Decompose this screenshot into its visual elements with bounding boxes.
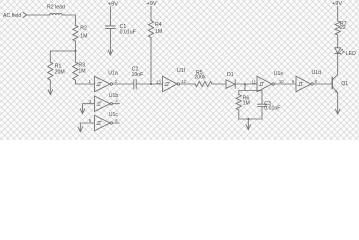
svg-text:R2: R2 xyxy=(80,26,87,32)
svg-text:1M: 1M xyxy=(78,69,85,75)
capacitor C1 xyxy=(105,25,115,27)
wire C1 bottom xyxy=(109,29,111,55)
wire U1d output to Q1 base xyxy=(313,83,332,85)
node junction R4/main xyxy=(150,83,152,85)
wire coil to R2 top xyxy=(62,15,75,25)
inductor R2 lead (coil) xyxy=(50,13,62,15)
node junction D1/R6C3 xyxy=(244,83,246,85)
svg-text:9: 9 xyxy=(292,79,295,84)
svg-text:4: 4 xyxy=(115,99,118,104)
wire U1b output stub xyxy=(113,103,120,105)
wire bottom rail to ground xyxy=(247,119,249,129)
schmitt mark U1b xyxy=(96,102,101,105)
resistor R5 xyxy=(195,81,212,86)
wire R2 bottom to junction xyxy=(74,41,76,51)
svg-text:6: 6 xyxy=(115,118,118,123)
svg-text:U1a: U1a xyxy=(108,70,118,76)
svg-text:12: 12 xyxy=(181,79,186,84)
op-amp U1e (schmitt inverter) xyxy=(274,71,284,77)
op-amp U1b (schmitt inverter, unused) xyxy=(109,93,119,99)
node bottom rail center xyxy=(247,118,249,120)
wire top rail to C3 xyxy=(261,91,263,105)
power +9V rail 2 xyxy=(147,1,157,7)
transistor Q1 xyxy=(331,78,333,89)
wire RC top rail xyxy=(239,90,262,92)
ground arrow U1c input xyxy=(78,127,83,132)
wire U1f output to R5 xyxy=(180,83,195,85)
resistor R1 xyxy=(48,62,53,80)
AC field input chevron xyxy=(23,12,27,17)
svg-text:2: 2 xyxy=(115,79,118,84)
ground arrow below R6/C3 xyxy=(246,125,251,130)
svg-text:1M: 1M xyxy=(155,29,162,35)
svg-text:R4: R4 xyxy=(155,22,162,28)
svg-text:Q1: Q1 xyxy=(341,81,348,87)
wire R4 bottom to main row xyxy=(150,38,152,85)
svg-text:0.01uF: 0.01uF xyxy=(120,29,136,35)
wire R7 to LED xyxy=(337,35,339,48)
wire U1a output to C2 xyxy=(113,83,134,85)
wire R5 to D1 xyxy=(212,83,226,85)
wire Q1 emitter down xyxy=(337,93,339,114)
svg-text:AC field: AC field xyxy=(3,13,21,19)
op-amp U1d (schmitt inverter) xyxy=(312,70,322,76)
svg-text:R2 lead: R2 lead xyxy=(47,4,65,10)
wire R6 bottom to bottom rail xyxy=(238,110,240,119)
svg-text:+9V: +9V xyxy=(147,1,157,7)
wire junction to R3 top xyxy=(74,51,76,62)
svg-text:8: 8 xyxy=(315,79,318,84)
wire +9V to C1 xyxy=(109,6,111,25)
node junction R2/R1/R3 xyxy=(74,50,76,52)
ground arrow below Q1 xyxy=(335,109,340,114)
svg-text:U1f: U1f xyxy=(177,68,186,74)
svg-text:1M: 1M xyxy=(80,34,87,40)
svg-text:1M: 1M xyxy=(243,101,250,107)
wire U1c input to ground xyxy=(80,123,94,132)
svg-text:0.01uF: 0.01uF xyxy=(264,105,280,111)
capacitor C2 xyxy=(133,80,135,90)
wire R1 bottom xyxy=(49,80,51,94)
schmitt mark U1d xyxy=(298,82,303,85)
capacitor C3 xyxy=(258,103,267,105)
svg-text:10: 10 xyxy=(279,79,284,84)
wire LED to Q1 collector xyxy=(337,54,339,75)
resistor R6 xyxy=(236,95,241,110)
wire C3 bottom to bottom rail xyxy=(261,107,263,119)
op-amp U1c (schmitt inverter, unused) xyxy=(109,112,119,118)
resistor R7 xyxy=(335,21,340,35)
svg-text:3: 3 xyxy=(89,99,92,104)
LED arrows xyxy=(339,49,343,53)
resistor R2 xyxy=(73,25,78,41)
wire C2 to U1f input xyxy=(136,83,162,85)
wire U1e output to U1d input xyxy=(274,83,296,85)
svg-text:1: 1 xyxy=(89,79,92,84)
LED xyxy=(335,48,341,54)
wire RC bottom rail xyxy=(239,118,262,120)
power +9V rail 1 xyxy=(108,1,118,7)
wire U1b input to ground xyxy=(83,104,95,114)
resistor R3 xyxy=(73,62,78,80)
svg-text:200k: 200k xyxy=(194,74,206,80)
ground arrow U1b input xyxy=(80,109,85,114)
wire top rail to R6 xyxy=(238,91,240,95)
op-amp U1a (schmitt inverter) xyxy=(108,70,118,76)
node AC field input label xyxy=(3,13,21,19)
svg-text:22: 22 xyxy=(340,25,346,31)
svg-text:10nF: 10nF xyxy=(132,72,144,78)
wire +9V to R4 xyxy=(150,6,152,21)
op-amp U1f (schmitt inverter) xyxy=(177,68,186,74)
wire R3 bottom to U1a input xyxy=(75,80,94,84)
schmitt mark U1e xyxy=(259,82,264,85)
schmitt mark U1c xyxy=(96,121,101,124)
schmitt mark U1f xyxy=(164,82,169,85)
svg-text:+9V: +9V xyxy=(108,1,118,7)
power +9V rail 3 xyxy=(332,1,342,7)
ground arrow below R1 xyxy=(48,90,53,95)
svg-text:13: 13 xyxy=(156,79,161,84)
svg-text:11: 11 xyxy=(252,79,257,84)
wire +9V to R7 xyxy=(337,6,339,21)
svg-text:LED: LED xyxy=(346,51,356,57)
ground arrow below C1 xyxy=(108,50,113,55)
svg-text:+9V: +9V xyxy=(332,1,342,7)
schmitt mark U1a xyxy=(96,82,101,85)
wire D1 to U1e input xyxy=(235,83,257,85)
diode D1 xyxy=(226,80,235,89)
wire U1c output stub xyxy=(113,122,120,124)
svg-text:U1e: U1e xyxy=(274,71,284,77)
svg-text:U1d: U1d xyxy=(312,70,322,76)
resistor R4 xyxy=(148,21,153,38)
svg-text:D1: D1 xyxy=(227,72,234,78)
svg-text:5: 5 xyxy=(89,118,92,123)
wire junction down to RC top rail xyxy=(244,84,246,90)
wire junction to R1 top xyxy=(50,51,75,62)
svg-text:20M: 20M xyxy=(55,69,65,75)
wire AC field to coil xyxy=(27,14,50,16)
